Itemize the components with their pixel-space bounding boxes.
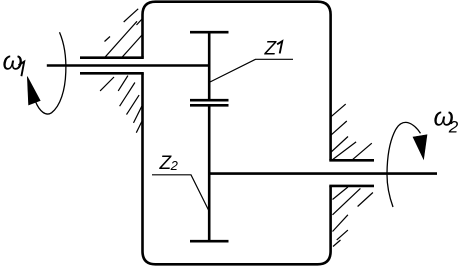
gearbox housing — [143, 2, 331, 265]
leader line Z1 — [210, 59, 293, 82]
gear Z2 shaft line (vertical) — [208, 104, 211, 242]
input rotation arrowhead — [27, 77, 40, 106]
input rotation arrow arc — [36, 32, 66, 114]
svg-text:Z2: Z2 — [159, 153, 179, 174]
input shaft — [47, 64, 210, 67]
svg-text:ω: ω — [3, 46, 23, 76]
right wall hatching above bearing — [331, 104, 372, 160]
right wall hatching below bearing — [333, 187, 373, 247]
left bearing upper line — [80, 56, 144, 59]
gear Z1 top cap — [190, 31, 229, 34]
leader line Z2 — [152, 175, 209, 210]
gear Z1 mesh line — [190, 99, 229, 102]
output shaft — [209, 172, 437, 175]
gear Z2 mesh line — [190, 104, 229, 107]
left wall hatching above bearing — [105, 9, 143, 58]
left wall hatching below bearing — [100, 76, 142, 133]
svg-text:Z: Z — [264, 38, 278, 59]
output rotation arrow arc — [387, 122, 421, 207]
gear Z1 shaft line (vertical) — [208, 31, 211, 101]
output rotation arrowhead — [413, 135, 427, 160]
right bearing lower line — [329, 185, 374, 188]
svg-text:ω2: ω2 — [434, 102, 459, 137]
left bearing lower line — [80, 72, 144, 75]
right bearing upper line — [329, 159, 374, 162]
gear Z2 bottom cap — [190, 240, 229, 243]
